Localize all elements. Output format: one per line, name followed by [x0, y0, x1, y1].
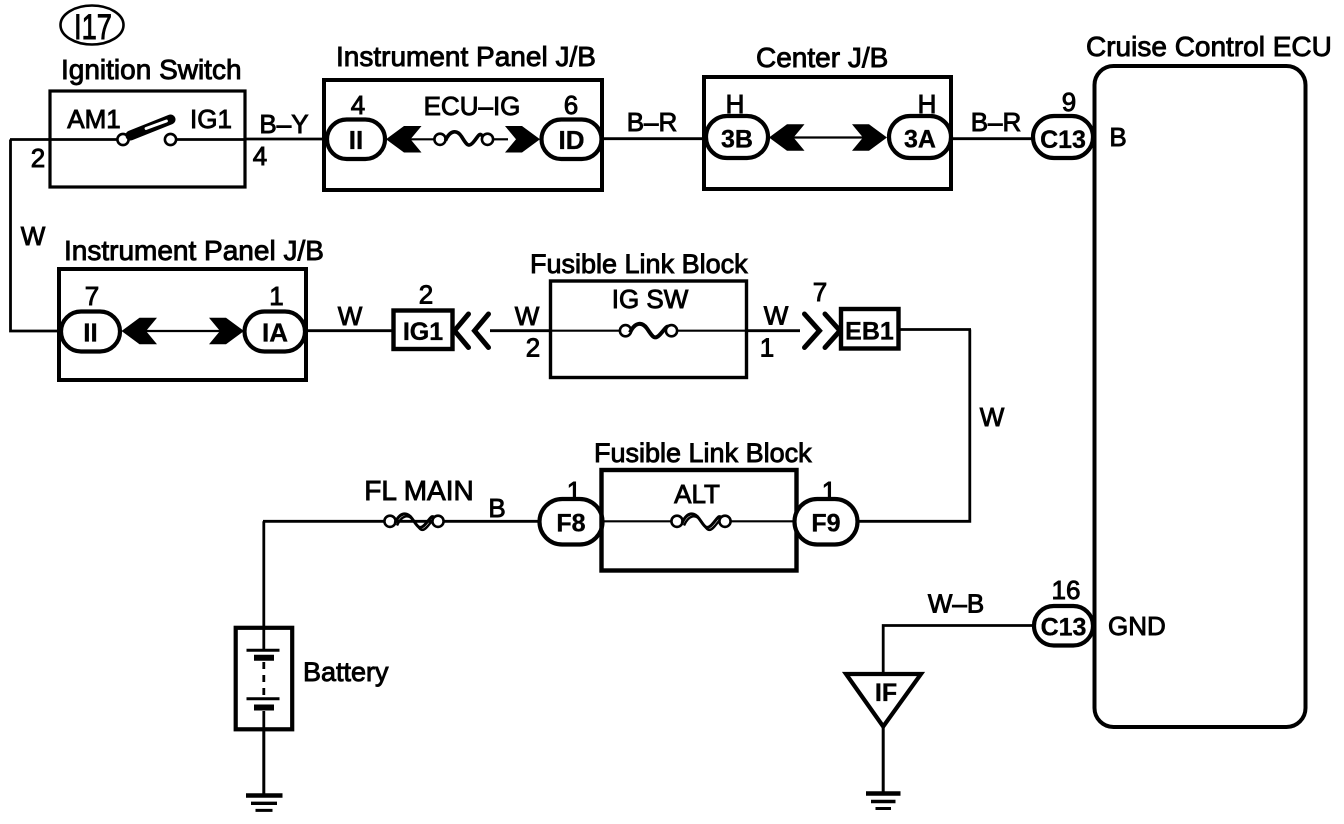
svg-text:W: W	[21, 221, 46, 251]
wire IF to ground	[882, 727, 885, 794]
wire IG1 contact to box right	[176, 138, 245, 141]
arrow into II (left)	[386, 126, 422, 153]
svg-text:B: B	[488, 493, 505, 523]
svg-text:F9: F9	[811, 510, 840, 538]
connector F9 oval	[795, 499, 858, 545]
svg-text:W: W	[338, 301, 363, 331]
fusible link ALT right terminal	[719, 516, 730, 527]
connector II oval (upper J/B)	[327, 120, 385, 160]
wire arrow to fuse circle	[391, 138, 440, 140]
wire 3A to C13 (B-R)	[951, 137, 1035, 140]
svg-text:B: B	[1109, 122, 1126, 152]
battery cell 1 negative plate	[254, 655, 274, 661]
battery bottom lead	[262, 711, 265, 729]
fusible link IG SW element	[630, 324, 671, 338]
svg-text:2: 2	[526, 333, 540, 363]
wire ID to Center J/B (B-R)	[602, 137, 706, 140]
connector C13 oval (pin 16 GND)	[1034, 606, 1093, 646]
svg-text:W–B: W–B	[928, 589, 984, 619]
ground symbol at battery	[246, 796, 283, 811]
svg-text:B–Y: B–Y	[259, 109, 308, 139]
fuse ECU-IG right terminal	[482, 134, 493, 145]
wire between arrows in center J/B	[774, 136, 882, 138]
svg-text:C13: C13	[1041, 614, 1087, 642]
battery cell 2 positive plate	[247, 697, 280, 700]
battery cell 2 negative plate	[254, 705, 274, 711]
wire ignition box left stub to AM1 contact	[10, 138, 120, 141]
svg-text:B–R: B–R	[627, 107, 678, 137]
wire right vertical EB1 to F9 row	[856, 330, 970, 522]
wire EB1 to right vertical	[899, 328, 972, 331]
svg-text:IF: IF	[875, 679, 897, 707]
svg-text:IG1: IG1	[190, 104, 232, 134]
male chevron 2 at IG1	[475, 314, 489, 348]
svg-text:IA: IA	[262, 318, 288, 348]
ground symbol at IF	[866, 794, 901, 809]
battery internal dashed link	[262, 662, 265, 696]
center J/B box	[704, 77, 951, 189]
svg-text:7: 7	[813, 277, 827, 307]
arrow into 3A (right)	[852, 124, 887, 150]
svg-text:F8: F8	[556, 510, 585, 538]
svg-text:2: 2	[31, 143, 45, 173]
wire battery vertical	[262, 521, 265, 630]
svg-text:W: W	[764, 301, 789, 331]
wire C13 GND to IF branch (W-B)	[883, 626, 1035, 675]
instrument panel J/B upper box	[324, 80, 602, 190]
connector IA oval (lower J/B)	[245, 312, 306, 352]
battery BAT1 box	[236, 628, 293, 730]
fusible link IG SW right terminal	[666, 325, 677, 336]
fusible link FL MAIN element	[395, 514, 438, 530]
wire ALT element to F9	[730, 520, 796, 522]
svg-text:ALT: ALT	[674, 479, 720, 509]
arrow into IA (right)	[209, 318, 244, 344]
connector C13 oval (pin 9)	[1033, 116, 1093, 158]
connector F8 oval	[540, 499, 603, 545]
connector IG1 box	[394, 311, 453, 350]
svg-text:I17: I17	[74, 8, 112, 47]
wire left vertical drop (node W)	[11, 140, 61, 332]
svg-text:3A: 3A	[904, 126, 936, 154]
svg-text:Fusible Link Block: Fusible Link Block	[594, 438, 812, 468]
svg-text:W: W	[980, 402, 1005, 432]
fusible link ALT element	[682, 514, 725, 530]
wire IA to IG1 (W)	[306, 329, 393, 332]
wire F8 to ALT element	[602, 520, 672, 522]
battery cell 1 positive plate	[247, 649, 280, 652]
fusible link FL MAIN right terminal	[432, 516, 443, 527]
svg-text:ECU–IG: ECU–IG	[424, 91, 521, 121]
svg-text:Ignition Switch: Ignition Switch	[61, 54, 242, 85]
svg-text:16: 16	[1052, 575, 1081, 605]
svg-text:4: 4	[253, 141, 267, 171]
fusible link FL MAIN left terminal	[384, 516, 395, 527]
wire box to EB1 chevrons (W)	[746, 329, 800, 332]
svg-text:Cruise Control ECU: Cruise Control ECU	[1086, 31, 1332, 62]
fusible link block ALT box	[602, 470, 797, 571]
svg-text:AM1: AM1	[67, 104, 120, 134]
svg-text:II: II	[349, 125, 363, 155]
fusible link block IG SW box	[551, 281, 747, 378]
svg-text:II: II	[83, 318, 97, 348]
svg-text:1: 1	[760, 333, 774, 363]
svg-text:3B: 3B	[721, 126, 753, 154]
svg-text:W: W	[515, 301, 540, 331]
arrow into II lower (left)	[122, 318, 158, 344]
svg-text:C13: C13	[1040, 126, 1086, 154]
male chevron 1 at EB1	[805, 314, 820, 348]
svg-text:Instrument Panel J/B: Instrument Panel J/B	[336, 41, 596, 72]
ignition switch SW1 box	[50, 91, 245, 187]
svg-text:EB1: EB1	[845, 318, 894, 346]
arrow into 3B (left)	[769, 124, 805, 150]
svg-text:7: 7	[85, 281, 99, 311]
male chevron 2 at EB1	[825, 314, 840, 348]
connector 3A oval	[889, 116, 951, 158]
svg-text:IG SW: IG SW	[612, 284, 689, 314]
wire chevrons to fusible link block (W)	[490, 329, 551, 332]
connector 3B oval	[706, 116, 768, 158]
ground connector IF triangle	[846, 674, 921, 727]
wire ignition to Instrument Panel J/B (B-Y)	[245, 138, 330, 141]
wire fuse to arrow	[493, 138, 508, 140]
svg-text:Instrument Panel J/B: Instrument Panel J/B	[64, 235, 324, 266]
svg-text:Fusible Link Block: Fusible Link Block	[530, 249, 748, 279]
svg-text:1: 1	[269, 281, 283, 311]
fuse ECU-IG left terminal	[434, 134, 445, 145]
wire battery to ground	[262, 729, 265, 795]
svg-text:Battery: Battery	[303, 657, 389, 687]
connector EB1 box	[841, 309, 899, 349]
svg-text:ID: ID	[559, 125, 585, 155]
wire box left to IG SW element	[551, 330, 621, 332]
fusible link IG SW left terminal	[620, 325, 631, 336]
cruise control ECU box	[1095, 66, 1306, 727]
svg-text:6: 6	[564, 90, 578, 120]
arrow into ID (right)	[505, 126, 540, 153]
connector II oval (lower J/B)	[61, 312, 120, 352]
svg-text:B–R: B–R	[971, 107, 1022, 137]
svg-text:FL MAIN: FL MAIN	[364, 475, 473, 506]
switch contact IG1	[165, 134, 176, 145]
instrument panel J/B lower box	[59, 269, 306, 380]
battery top lead	[262, 628, 265, 650]
wire IG SW element to box right	[677, 330, 746, 332]
connector ID oval (upper J/B)	[542, 120, 602, 160]
switch lever	[131, 120, 171, 136]
svg-text:IG1: IG1	[403, 318, 443, 346]
wire between arrows in lower J/B	[126, 330, 239, 332]
svg-text:Center J/B: Center J/B	[756, 42, 888, 73]
wire battery branch to F8 (B)	[263, 520, 542, 523]
svg-text:9: 9	[1062, 87, 1076, 117]
fusible link ALT left terminal	[671, 516, 682, 527]
connector code I17 oval	[61, 6, 124, 48]
svg-text:2: 2	[419, 280, 433, 310]
male chevron 1 at IG1	[455, 314, 469, 348]
svg-text:4: 4	[351, 90, 365, 120]
svg-text:GND: GND	[1108, 611, 1166, 641]
switch contact AM1	[117, 134, 128, 145]
fuse ECU-IG element	[446, 132, 484, 145]
